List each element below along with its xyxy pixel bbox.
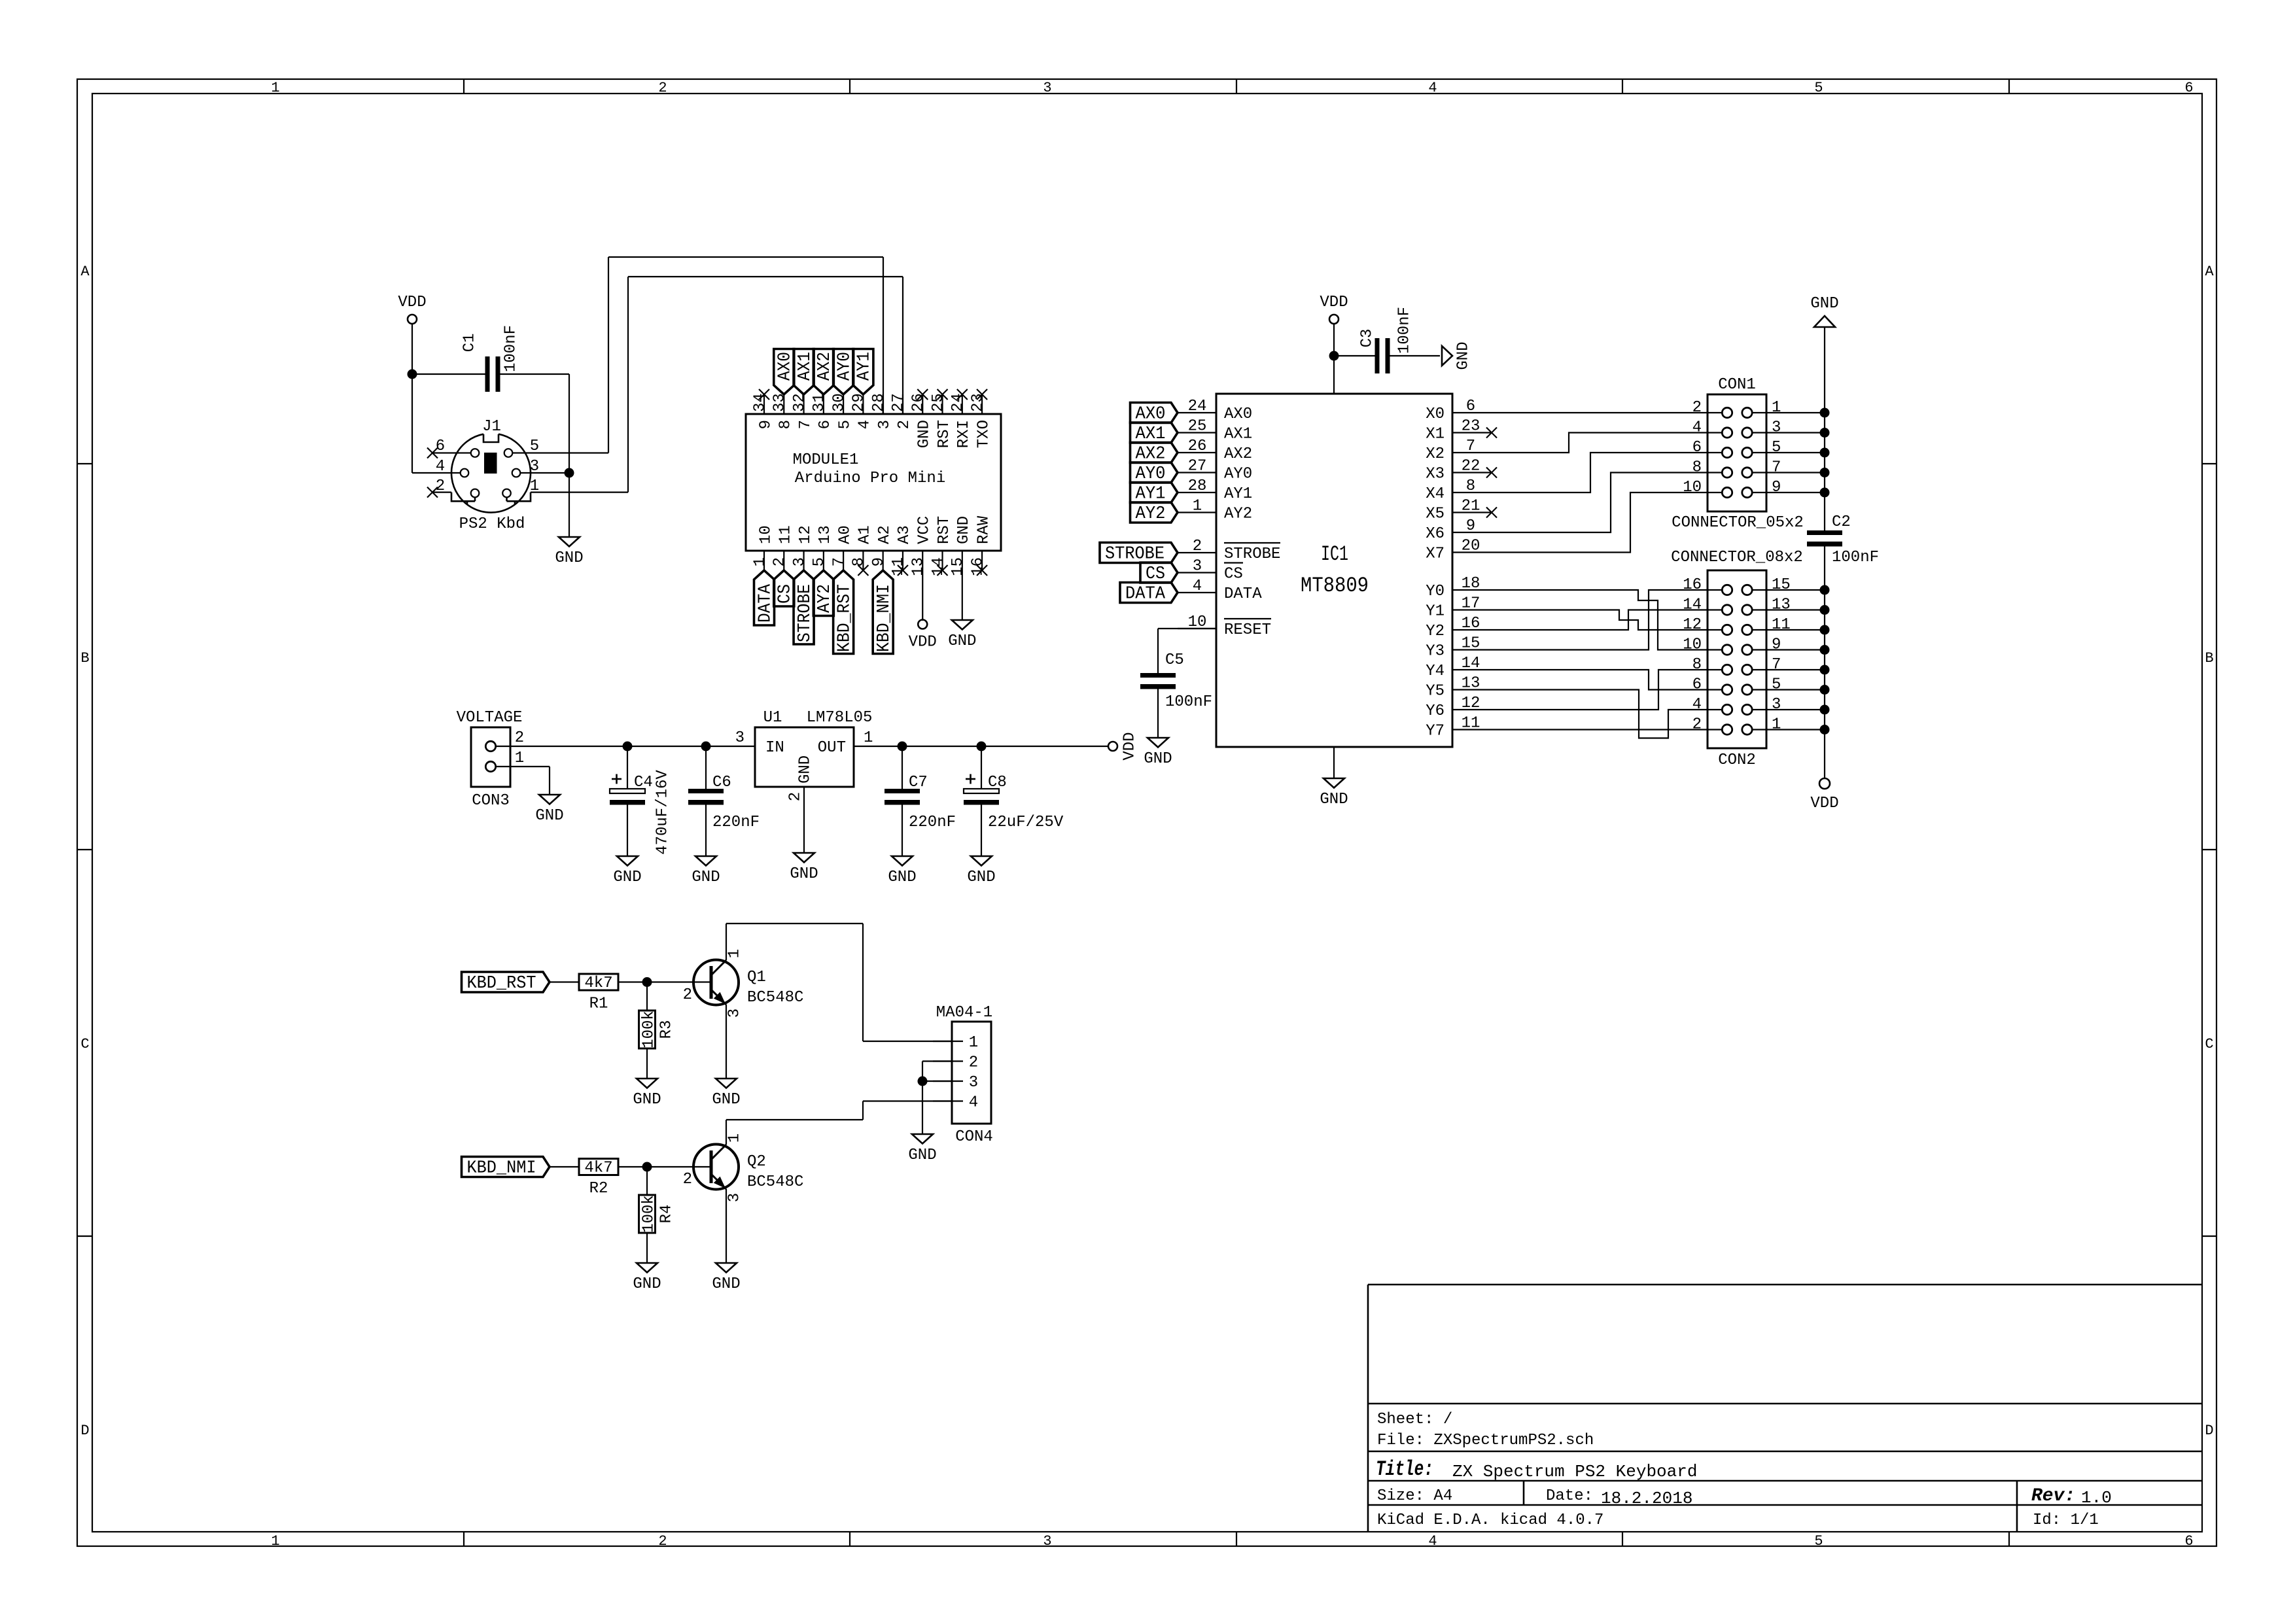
svg-text:X5: X5 <box>1426 506 1445 523</box>
svg-text:AY0: AY0 <box>1224 466 1252 483</box>
wire Q1 emitter to ground <box>726 1005 727 1079</box>
svg-text:28: 28 <box>870 393 888 412</box>
svg-text:C4: C4 <box>634 774 653 791</box>
svg-text:VDD: VDD <box>1320 294 1348 311</box>
svg-text:CONNECTOR_08x2: CONNECTOR_08x2 <box>1671 549 1803 566</box>
wire J1 pin 5 to Arduino pin 3 net <box>512 257 883 453</box>
svg-text:GND: GND <box>692 869 720 886</box>
svg-text:14: 14 <box>1462 655 1480 672</box>
svg-text:3: 3 <box>1772 419 1781 437</box>
svg-text:R1: R1 <box>589 995 608 1013</box>
ground (U1) <box>790 853 818 883</box>
svg-text:DATA: DATA <box>756 583 775 623</box>
wire Y0 to CON2 pin 10 <box>1491 590 1708 650</box>
svg-text:4k7: 4k7 <box>584 1160 612 1177</box>
svg-text:100k: 100k <box>640 1195 657 1233</box>
svg-text:GND: GND <box>555 549 583 567</box>
svg-text:GND: GND <box>535 807 563 825</box>
svg-text:DATA: DATA <box>1224 585 1262 603</box>
label flag AX1 (Arduino pin 32) <box>794 349 815 395</box>
svg-text:CON4: CON4 <box>955 1128 993 1146</box>
svg-text:C5: C5 <box>1165 651 1184 669</box>
svg-text:7: 7 <box>1466 438 1475 455</box>
no-connect MODULE1 pins 8 11 14 16 <box>858 565 987 576</box>
svg-text:2: 2 <box>1193 538 1202 555</box>
svg-text:AX2: AX2 <box>1136 445 1166 464</box>
svg-text:10: 10 <box>1683 479 1702 496</box>
svg-text:3: 3 <box>1043 1533 1051 1549</box>
svg-text:VOLTAGE: VOLTAGE <box>457 709 523 727</box>
capacitor C6 <box>688 746 760 831</box>
svg-text:STROBE: STROBE <box>796 584 815 642</box>
junction CON4 pin3 / GND <box>918 1077 928 1086</box>
ground (Q1) <box>712 1079 740 1109</box>
svg-text:1: 1 <box>271 80 279 96</box>
junction rail / C6 <box>701 742 711 752</box>
label flag AY2 (IC1 pin 1) <box>1130 502 1178 524</box>
svg-text:3: 3 <box>876 420 894 429</box>
svg-text:2: 2 <box>771 557 789 566</box>
svg-text:3: 3 <box>735 729 745 747</box>
svg-text:Rev:: Rev: <box>2031 1486 2075 1506</box>
svg-text:Y3: Y3 <box>1426 643 1445 661</box>
svg-text:17: 17 <box>1462 595 1480 613</box>
wire X2 to CON1 pin 4 <box>1491 433 1708 453</box>
power VDD (PS2) <box>398 294 426 374</box>
label flag AX2 (IC1 pin 26) <box>1130 443 1178 464</box>
wire C1 to GND net <box>500 374 570 473</box>
svg-text:A2: A2 <box>876 525 894 544</box>
ground (R3) <box>633 1079 661 1109</box>
svg-text:2: 2 <box>786 792 804 801</box>
junction GND rail / CON2 <box>1820 665 1830 675</box>
label flag AY0 (IC1 pin 27) <box>1130 462 1178 484</box>
junction GND rail / CON1 <box>1820 468 1830 477</box>
junction GND rail / CON2 <box>1820 585 1830 595</box>
svg-text:26: 26 <box>1188 438 1207 455</box>
svg-text:KBD_RST: KBD_RST <box>835 584 854 652</box>
svg-text:6: 6 <box>1692 439 1702 457</box>
capacitor C5 <box>1140 651 1212 711</box>
wire Y2 to CON2 pin 14 <box>1491 610 1708 631</box>
svg-text:1: 1 <box>515 750 524 767</box>
svg-text:11: 11 <box>1772 616 1791 634</box>
svg-text:9: 9 <box>757 420 775 429</box>
ground (C8) <box>967 856 995 886</box>
IC1 Y pin numbers <box>1462 575 1480 733</box>
label flag KBD_NMI (Arduino pin 9) <box>873 570 894 654</box>
svg-text:KBD_NMI: KBD_NMI <box>467 1159 536 1179</box>
label flag AX2 (Arduino pin 31) <box>813 349 835 395</box>
svg-text:RXI: RXI <box>955 420 973 448</box>
label flag KBD_NMI <box>462 1157 550 1179</box>
svg-text:Y2: Y2 <box>1426 623 1445 640</box>
no-connect MODULE1 pins 34 26 25 24 23 <box>759 389 987 400</box>
svg-text:33: 33 <box>771 393 789 412</box>
svg-text:11: 11 <box>1462 715 1480 733</box>
svg-text:4: 4 <box>856 420 874 429</box>
svg-text:2: 2 <box>683 986 692 1004</box>
svg-text:5: 5 <box>1814 1533 1823 1549</box>
svg-text:IC1: IC1 <box>1321 542 1348 566</box>
svg-text:2: 2 <box>658 80 667 96</box>
label flag KBD_RST <box>462 972 550 993</box>
svg-text:GND: GND <box>1454 341 1472 370</box>
svg-text:2: 2 <box>658 1533 667 1549</box>
svg-text:27: 27 <box>890 393 907 412</box>
ground (top of rail) <box>1810 295 1838 327</box>
CON4 pin numbers <box>969 1034 978 1112</box>
Q1 pin number labels <box>683 949 744 1018</box>
junction GND rail / CON2 <box>1820 685 1830 695</box>
svg-text:PS2 Kbd: PS2 Kbd <box>459 515 525 533</box>
svg-text:Arduino Pro Mini: Arduino Pro Mini <box>795 470 945 487</box>
svg-text:220nF: 220nF <box>909 814 956 831</box>
capacitor C8 (polarized) <box>964 746 1064 831</box>
no-connect J1 pin 2 <box>427 487 451 498</box>
wire Y1 to CON2 pin 12 <box>1491 610 1708 631</box>
svg-text:100nF: 100nF <box>1395 307 1413 354</box>
svg-text:GND: GND <box>948 632 976 650</box>
label flag AX0 (IC1 pin 24) <box>1130 403 1178 424</box>
IC IC1 MT8809 body <box>1216 394 1452 747</box>
svg-text:AY2: AY2 <box>1224 506 1252 523</box>
ground (C4) <box>613 856 641 886</box>
svg-text:9: 9 <box>1772 479 1781 496</box>
wire KBD_NMI to R2 <box>550 1166 579 1167</box>
wire VDD to IC1 top <box>1333 356 1335 394</box>
svg-text:Q1: Q1 <box>747 969 766 986</box>
wire R2 to Q2 base <box>618 1166 710 1167</box>
junction rail / C7 <box>898 742 907 752</box>
svg-text:TXO: TXO <box>975 420 992 448</box>
IC1 left pin numbers <box>1188 398 1207 631</box>
svg-text:C6: C6 <box>712 774 731 791</box>
svg-text:7: 7 <box>830 557 848 566</box>
svg-text:RST: RST <box>936 420 953 448</box>
svg-text:7: 7 <box>797 420 815 429</box>
svg-text:CON2: CON2 <box>1718 752 1756 769</box>
label flag AY0 (Arduino pin 30) <box>833 349 855 395</box>
svg-text:6: 6 <box>1466 398 1475 415</box>
wire Y5 to CON2 pin 4 <box>1491 690 1708 738</box>
ground (R4) <box>633 1263 661 1293</box>
svg-text:X7: X7 <box>1426 545 1445 563</box>
wire C8 to ground <box>981 805 982 857</box>
wire J1 pin 3 to GND junction <box>520 472 569 474</box>
wire Y4 to CON2 pin 6 <box>1491 670 1708 690</box>
CON4 pin stubs <box>933 1041 963 1101</box>
svg-text:R4: R4 <box>657 1205 675 1224</box>
svg-text:Y4: Y4 <box>1426 663 1445 680</box>
svg-text:X6: X6 <box>1426 525 1445 543</box>
wire VCC pin to VDD <box>922 570 923 621</box>
CON2 right pin numbers <box>1772 576 1791 734</box>
connector CON2 body <box>1708 570 1766 748</box>
svg-text:15: 15 <box>949 557 967 576</box>
wire CON4 pin 4 to Q2 collector <box>726 1101 952 1145</box>
svg-text:5: 5 <box>1772 676 1781 694</box>
wire X7 to CON1 pin 10 <box>1491 492 1708 553</box>
svg-text:1: 1 <box>1193 498 1202 515</box>
svg-text:8: 8 <box>1466 477 1475 495</box>
svg-text:13: 13 <box>1772 596 1791 614</box>
svg-text:16: 16 <box>1462 615 1480 632</box>
svg-text:2: 2 <box>683 1171 692 1188</box>
svg-text:12: 12 <box>1683 616 1702 634</box>
svg-text:4: 4 <box>1692 419 1702 437</box>
ground (C6) <box>692 856 720 886</box>
junction GND rail / CON2 <box>1820 705 1830 715</box>
svg-text:GND: GND <box>633 1091 661 1109</box>
svg-text:100nF: 100nF <box>1165 693 1212 711</box>
svg-text:X2: X2 <box>1426 445 1445 463</box>
IC1 left pin stubs <box>1178 413 1216 629</box>
svg-text:ZX Spectrum PS2 Keyboard: ZX Spectrum PS2 Keyboard <box>1452 1462 1697 1481</box>
MODULE1 top pin names <box>757 420 992 448</box>
svg-text:BC548C: BC548C <box>747 989 803 1007</box>
svg-text:1: 1 <box>1772 716 1781 734</box>
svg-text:6: 6 <box>2184 80 2193 96</box>
label flag AY2 (Arduino pin 5) <box>813 570 835 616</box>
svg-text:27: 27 <box>1188 458 1207 475</box>
svg-text:23: 23 <box>1462 418 1480 436</box>
svg-text:1: 1 <box>1772 399 1781 417</box>
svg-text:4: 4 <box>969 1094 978 1112</box>
wire VDD to C1 <box>412 373 485 375</box>
resistor R1 <box>579 974 618 1013</box>
capacitor C7 <box>885 746 956 831</box>
wires CON1 right pins to GND rail <box>1766 413 1825 492</box>
wire IC1 RESET to C5 <box>1158 629 1216 673</box>
wire C4 to ground <box>627 805 628 857</box>
svg-text:6: 6 <box>1692 676 1702 694</box>
svg-text:1: 1 <box>271 1533 279 1549</box>
svg-text:KiCad E.D.A.: KiCad E.D.A. <box>1377 1512 1490 1529</box>
connector CON4 body <box>952 1022 991 1124</box>
label flag STROBE (IC1 pin 2) <box>1100 543 1178 564</box>
ground (PS2) <box>555 537 583 567</box>
svg-text:A: A <box>2205 264 2214 280</box>
svg-text:16: 16 <box>1683 576 1702 594</box>
wire GND rail lower <box>1824 547 1825 779</box>
svg-text:6: 6 <box>2184 1533 2193 1549</box>
svg-text:5: 5 <box>1772 439 1781 457</box>
svg-text:13: 13 <box>816 525 834 544</box>
svg-text:1: 1 <box>726 949 743 958</box>
svg-text:100nF: 100nF <box>502 325 519 372</box>
svg-text:5: 5 <box>836 420 854 429</box>
svg-text:9: 9 <box>870 557 888 566</box>
wire Y3 to CON2 pin 16 <box>1491 590 1708 650</box>
wire U1 pin 2 to ground <box>803 819 805 853</box>
svg-text:AY1: AY1 <box>1136 485 1166 504</box>
svg-text:MT8809: MT8809 <box>1301 574 1369 598</box>
ground (CON4) <box>908 1134 936 1164</box>
power VDD (bottom of rail) <box>1810 778 1838 812</box>
svg-text:C: C <box>2205 1036 2213 1052</box>
CON2 pin circles <box>1708 585 1766 734</box>
junction GND rail / CON1 <box>1820 408 1830 418</box>
junction R2 / R4 <box>642 1162 652 1172</box>
label flag AY1 (IC1 pin 28) <box>1130 483 1178 504</box>
label flag AX1 (IC1 pin 25) <box>1130 423 1178 444</box>
capacitor C2 <box>1807 513 1879 566</box>
svg-text:6: 6 <box>816 420 834 429</box>
svg-text:GND: GND <box>908 1147 936 1164</box>
svg-text:3: 3 <box>969 1074 978 1092</box>
junction GND rail / CON1 <box>1820 488 1830 498</box>
svg-text:GND: GND <box>712 1275 740 1293</box>
svg-text:A: A <box>80 264 90 280</box>
svg-text:2: 2 <box>969 1054 978 1072</box>
IC1 X pin names <box>1426 406 1445 563</box>
svg-text:3: 3 <box>1193 558 1202 576</box>
transistor Q1 <box>693 960 739 1005</box>
svg-text:12: 12 <box>1462 695 1480 712</box>
U1 pin 2 stub <box>803 787 805 819</box>
label flag AY1 (Arduino pin 29) <box>853 349 875 395</box>
wire KBD_RST to R1 <box>550 981 579 982</box>
svg-text:31: 31 <box>811 393 828 412</box>
svg-text:25: 25 <box>1188 418 1207 436</box>
svg-text:GND: GND <box>712 1091 740 1109</box>
svg-text:220nF: 220nF <box>712 814 760 831</box>
svg-text:U1: U1 <box>763 709 782 727</box>
svg-text:VDD: VDD <box>909 634 937 651</box>
svg-text:22uF/25V: 22uF/25V <box>988 814 1064 831</box>
wire Y7 to CON2 pin 2 <box>1491 729 1708 730</box>
svg-text:Y6: Y6 <box>1426 702 1445 720</box>
svg-text:C2: C2 <box>1832 513 1851 531</box>
label flag STROBE (Arduino pin 3) <box>794 570 815 644</box>
junction rail / C4 <box>623 742 633 752</box>
junction GND rail / CON1 <box>1820 428 1830 438</box>
junction GND rail / CON2 <box>1820 645 1830 655</box>
svg-text:CON3: CON3 <box>472 792 510 810</box>
svg-text:4: 4 <box>1193 578 1202 595</box>
svg-text:7: 7 <box>1772 459 1781 477</box>
resistor R3 <box>639 1011 676 1048</box>
capacitor C3 <box>1334 307 1440 373</box>
connector CON1 body <box>1708 394 1766 511</box>
svg-text:A3: A3 <box>896 525 913 544</box>
wire X4 to CON1 pin 6 <box>1491 453 1708 492</box>
junction GND rail / CON2 <box>1820 605 1830 615</box>
svg-text:2: 2 <box>1692 716 1702 734</box>
wire X6 to CON1 pin 8 <box>1491 473 1708 533</box>
svg-text:RAW: RAW <box>975 515 992 544</box>
junction GND rail / CON1 <box>1820 448 1830 458</box>
svg-text:24: 24 <box>1188 398 1207 415</box>
svg-text:RST: RST <box>936 516 953 544</box>
svg-text:AY2: AY2 <box>1136 504 1166 524</box>
junction GND rail / CON2 <box>1820 725 1830 734</box>
border zone letters right <box>2205 264 2214 1439</box>
ground (Q2) <box>712 1263 740 1293</box>
svg-text:kicad 4.0.7: kicad 4.0.7 <box>1500 1512 1603 1529</box>
svg-text:7: 7 <box>1772 656 1781 674</box>
svg-text:MA04-1: MA04-1 <box>936 1004 992 1022</box>
border zone letters left <box>80 264 90 1439</box>
wire Y6 to CON2 pin 8 <box>1491 670 1708 710</box>
svg-text:12: 12 <box>797 525 815 544</box>
ground (C5) <box>1144 738 1172 768</box>
svg-text:Sheet: /: Sheet: / <box>1377 1411 1452 1428</box>
capacitor C4 (polarized) <box>610 746 671 855</box>
wire GND rail upper <box>1824 327 1825 530</box>
svg-text:100nF: 100nF <box>1832 549 1879 566</box>
svg-text:5: 5 <box>1814 80 1823 96</box>
svg-text:GND: GND <box>967 869 995 886</box>
svg-text:IN: IN <box>765 739 784 757</box>
svg-text:C1: C1 <box>461 334 478 353</box>
svg-text:GND: GND <box>1810 295 1838 313</box>
svg-text:22: 22 <box>1462 458 1480 475</box>
svg-text:GND: GND <box>633 1275 661 1293</box>
svg-text:2: 2 <box>896 420 913 429</box>
svg-text:3: 3 <box>726 1193 743 1202</box>
svg-text:OUT: OUT <box>818 739 846 757</box>
svg-text:1: 1 <box>864 729 873 747</box>
svg-text:470uF/16V: 470uF/16V <box>654 770 671 855</box>
svg-text:AY1: AY1 <box>855 352 875 381</box>
wire R4 to ground <box>646 1233 648 1263</box>
svg-text:D: D <box>80 1423 89 1439</box>
wire junction to R3 <box>646 982 648 1011</box>
svg-text:Y5: Y5 <box>1426 683 1445 700</box>
svg-text:13: 13 <box>1462 675 1480 693</box>
CON2 left pin numbers <box>1683 576 1702 734</box>
svg-text:VCC: VCC <box>915 516 933 544</box>
svg-text:GND: GND <box>790 865 818 883</box>
no-connect J1 pin 6 <box>427 448 471 458</box>
svg-text:Size: A4: Size: A4 <box>1377 1487 1452 1505</box>
svg-text:28: 28 <box>1188 477 1207 495</box>
regulator U1 LM78L05 body <box>755 727 854 787</box>
svg-text:AY0: AY0 <box>1136 464 1166 484</box>
svg-text:A1: A1 <box>856 525 874 544</box>
transistor Q2 <box>693 1145 739 1190</box>
MODULE1 bottom pin names <box>757 515 992 544</box>
svg-text:D: D <box>2205 1423 2213 1439</box>
svg-text:4: 4 <box>1428 80 1437 96</box>
svg-text:DATA: DATA <box>1125 585 1166 604</box>
svg-text:15: 15 <box>1772 576 1791 594</box>
wire junction to R4 <box>646 1167 648 1195</box>
CON1 pin circles <box>1708 407 1766 497</box>
svg-text:GND: GND <box>955 516 973 544</box>
ground (C7) <box>888 856 916 886</box>
svg-text:Y7: Y7 <box>1426 723 1445 740</box>
wire Q2 emitter to ground <box>726 1189 727 1263</box>
wire CON3 pin 1 to ground <box>510 767 550 795</box>
svg-text:9: 9 <box>1466 517 1475 535</box>
wire CON4 pin 2 to GND node <box>922 1062 952 1082</box>
junction GND rail / CON2 <box>1820 625 1830 635</box>
svg-text:GND: GND <box>915 420 933 448</box>
svg-text:C7: C7 <box>909 774 928 791</box>
label flag CS (IC1 pin 3) <box>1140 562 1178 584</box>
svg-text:Y0: Y0 <box>1426 583 1445 600</box>
IC1 left pin names <box>1224 406 1280 639</box>
svg-text:VDD: VDD <box>1810 795 1838 812</box>
svg-text:2: 2 <box>1692 399 1702 417</box>
IC1 Y pin names <box>1426 583 1445 740</box>
wires CON2 right pins to GND rail <box>1766 590 1825 730</box>
svg-text:CS: CS <box>1146 564 1165 584</box>
svg-text:Title:: Title: <box>1376 1457 1433 1481</box>
